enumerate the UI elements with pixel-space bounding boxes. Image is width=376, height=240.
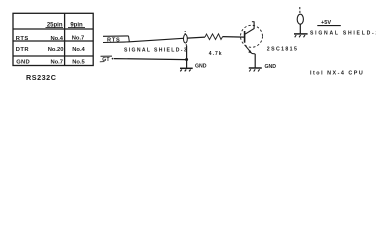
- connector pin contact on RTS wire: [184, 31, 188, 46]
- ground (connector shield): [180, 68, 193, 71]
- svg-text:GND: GND: [16, 59, 30, 65]
- wire resistor to base: [223, 36, 244, 39]
- svg-text:RS232C: RS232C: [26, 73, 56, 82]
- node GND row: [16, 59, 85, 65]
- wire shield vertical drop: [186, 46, 188, 68]
- svg-text:No.4: No.4: [50, 36, 63, 42]
- signal flag RTS: [103, 36, 129, 43]
- shield terminal loop (signal shield 2): [297, 7, 303, 34]
- svg-text:No.7: No.7: [72, 36, 85, 42]
- svg-text:No.20: No.20: [48, 47, 64, 53]
- transistor Q1 2SC1815: [241, 22, 299, 68]
- node RTS row: [16, 36, 84, 42]
- svg-text:2SC1815: 2SC1815: [267, 46, 298, 52]
- svg-text:DTR: DTR: [16, 47, 30, 53]
- svg-text:No.4: No.4: [72, 47, 85, 53]
- svg-text:RTS: RTS: [16, 36, 29, 42]
- svg-text:No.7: No.7: [50, 59, 63, 65]
- wire GT flag to shield node: [114, 59, 187, 60]
- svg-text:GT: GT: [102, 57, 110, 63]
- svg-text:SIGNAL SHIELD-3: SIGNAL SHIELD-3: [124, 47, 188, 53]
- net +5V: [317, 20, 341, 26]
- node 9pin column header: [68, 22, 85, 28]
- ground (emitter): [249, 68, 262, 72]
- svg-text:Itol NX-4 CPU: Itol NX-4 CPU: [310, 71, 364, 77]
- pin-assignment table frame: [13, 13, 93, 65]
- svg-text:GND: GND: [195, 63, 207, 69]
- signal flag GT (lower): [100, 56, 114, 63]
- node DTR row: [16, 47, 86, 53]
- svg-text:RTS: RTS: [107, 37, 121, 43]
- resistor 4.7k: [205, 34, 223, 57]
- junction shield/GT wire: [185, 58, 188, 61]
- wire RTS to connector: [124, 41, 130, 43]
- svg-text:4.7k: 4.7k: [209, 51, 223, 57]
- svg-text:SIGNAL SHIELD-2: SIGNAL SHIELD-2: [310, 31, 376, 37]
- node 25pin column header: [46, 22, 64, 28]
- wire connector to resistor: [187, 37, 205, 38]
- ground (shield terminal): [294, 34, 308, 37]
- svg-text:No.5: No.5: [72, 59, 85, 65]
- svg-text:GND: GND: [265, 64, 277, 70]
